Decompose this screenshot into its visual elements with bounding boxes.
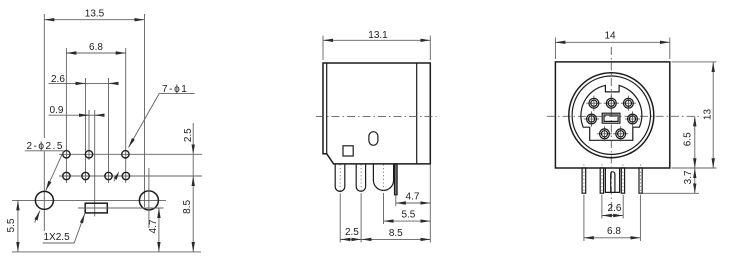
svg-text:2.6: 2.6 (608, 203, 622, 214)
extension bottom edge right (672, 167, 717, 169)
center key rectangle outer (602, 113, 620, 123)
svg-text:3.7: 3.7 (683, 170, 694, 184)
shield leg front (605, 168, 619, 193)
pin 4 front (mid row left) (584, 111, 599, 126)
shield contact side view (373, 164, 393, 191)
slot centerline y208 (78, 207, 164, 209)
shield inner circle (572, 76, 650, 154)
centerline col E (pins x125.7) (125, 48, 127, 183)
dimension 13.5 (44, 19, 144, 21)
svg-text:6.8: 6.8 (89, 42, 103, 53)
svg-text:13.5: 13.5 (85, 8, 105, 19)
svg-text:13: 13 (703, 109, 714, 121)
svg-text:0.9: 0.9 (50, 105, 64, 116)
extension line front left top (554, 38, 556, 60)
svg-text:14: 14 (604, 31, 616, 42)
svg-text:8.5: 8.5 (182, 200, 193, 214)
row2 centerline y175.8 (59, 175, 202, 177)
dimension 2.6 front (602, 215, 623, 217)
svg-text:5.5: 5.5 (6, 218, 17, 232)
main horizontal centerline y200.4 (12, 199, 166, 201)
pin 2 side view (356, 164, 365, 191)
pin 3 front (top row right) (621, 96, 636, 111)
body outline side view (323, 63, 430, 164)
extension line body right top (429, 36, 431, 60)
dimension 8.5 side view (340, 238, 430, 240)
dimension 5.5 (17, 200, 19, 252)
dimension 4.7 left view (158, 208, 160, 252)
body inner line left (326, 63, 328, 154)
shield leg slot (611, 172, 615, 193)
slot 1x2.5 (85, 203, 107, 213)
centerline leg D (640, 165, 642, 196)
body inner line right (416, 63, 418, 164)
svg-text:6.5: 6.5 (682, 132, 693, 146)
centerline slot x94.7 (94, 110, 96, 217)
extension line body left top (322, 36, 324, 60)
pin hole row1-3 (122, 151, 129, 158)
body centerline (316, 116, 437, 118)
extension pin bottom right (643, 192, 699, 194)
pin hole row2-4 (122, 172, 129, 179)
leg A front (582, 168, 586, 193)
pin 1 front (top row left) (586, 96, 601, 111)
dimension 6.5 front (694, 116, 696, 168)
pin 1 centerline (339, 165, 341, 195)
centerline leg A (583, 165, 585, 196)
square hole (343, 146, 353, 156)
pin hole row1-2 (85, 151, 92, 158)
extension line body right bottom (429, 165, 431, 243)
pin hole row2-2 (82, 172, 89, 179)
shield opening with keyway (581, 85, 642, 140)
extension line front right top (669, 38, 671, 60)
centerline hole R x148.9 (148, 168, 150, 228)
bottom reference line y251.9 (12, 251, 201, 253)
mounting hole left (35, 191, 53, 209)
svg-text:8.5: 8.5 (389, 228, 403, 239)
pin 1 side view (335, 164, 345, 191)
pin hole row1-1 (63, 151, 70, 158)
svg-text:1X2.5: 1X2.5 (44, 232, 71, 243)
dimension 0.9 (49, 114, 105, 116)
flat pin side view (395, 164, 398, 195)
svg-text:13.1: 13.1 (368, 30, 388, 41)
dimension 5.5 side view (384, 220, 431, 222)
dimension 13.1 (323, 39, 430, 41)
centerline col A (hole L / 13.5 ext) (43, 14, 45, 138)
pin 2 front (top row mid) (604, 96, 619, 111)
extension leg A (583, 195, 585, 241)
leg D front (639, 168, 642, 193)
svg-text:2.5: 2.5 (183, 128, 194, 142)
flat pin extension (395, 196, 397, 207)
pin hole row2-3 (105, 172, 112, 179)
row1 centerline y155.2 (59, 153, 202, 155)
extension line x85.5 (85, 78, 87, 183)
dimension 2.6 (49, 82, 118, 84)
extension leg D (639, 195, 641, 241)
dimension 13 front (712, 62, 714, 168)
shield contact centerline (383, 165, 385, 194)
dimension 3.7 front (694, 168, 696, 193)
mounting hole right (139, 191, 158, 210)
svg-text:5.5: 5.5 (401, 209, 415, 220)
dimension 2.5 left view (192, 123, 194, 154)
extension leg C (622, 195, 624, 219)
arrow tick at row2-3 (114, 176, 117, 182)
svg-text:6.8: 6.8 (607, 226, 621, 237)
leg C front (621, 168, 624, 193)
extension line x89 (88, 110, 90, 160)
dimension 6.8 (66, 52, 125, 54)
extension line x108.5 (108, 78, 110, 183)
center key rectangle inner (604, 115, 618, 121)
centerline col F (13.5 right ext) (144, 14, 146, 207)
oval hole (369, 132, 378, 146)
centerline leg B (601, 165, 603, 196)
dimension 6.8 front (584, 237, 641, 239)
pin 7 front (bottom row right) (613, 126, 628, 141)
svg-text:4.7: 4.7 (406, 191, 420, 202)
svg-text:2.6: 2.6 (51, 74, 65, 85)
vertical centerline front (610, 47, 612, 210)
extension top edge right (672, 61, 717, 63)
pin 5 front (mid row right) (625, 111, 640, 126)
centerline col B (pins x66.4) (65, 48, 67, 183)
svg-text:2.5: 2.5 (345, 227, 359, 238)
front body square (555, 62, 669, 168)
centerline leg C (622, 165, 624, 196)
dimension 8.5 left view (192, 176, 194, 252)
pin 6 front (bottom row left) (597, 126, 612, 141)
svg-text:4.7: 4.7 (148, 219, 159, 233)
dimension 4.7 side view (396, 202, 431, 204)
dimension 14 (555, 41, 669, 43)
horizontal centerline front (547, 115, 700, 117)
stub arrow at hole L (35, 211, 40, 223)
leg B front (600, 168, 603, 193)
shield outer circle (569, 73, 654, 158)
extension leg B (601, 195, 603, 219)
pin 2 centerline (360, 165, 362, 195)
pin hole row2-1 (63, 172, 70, 179)
